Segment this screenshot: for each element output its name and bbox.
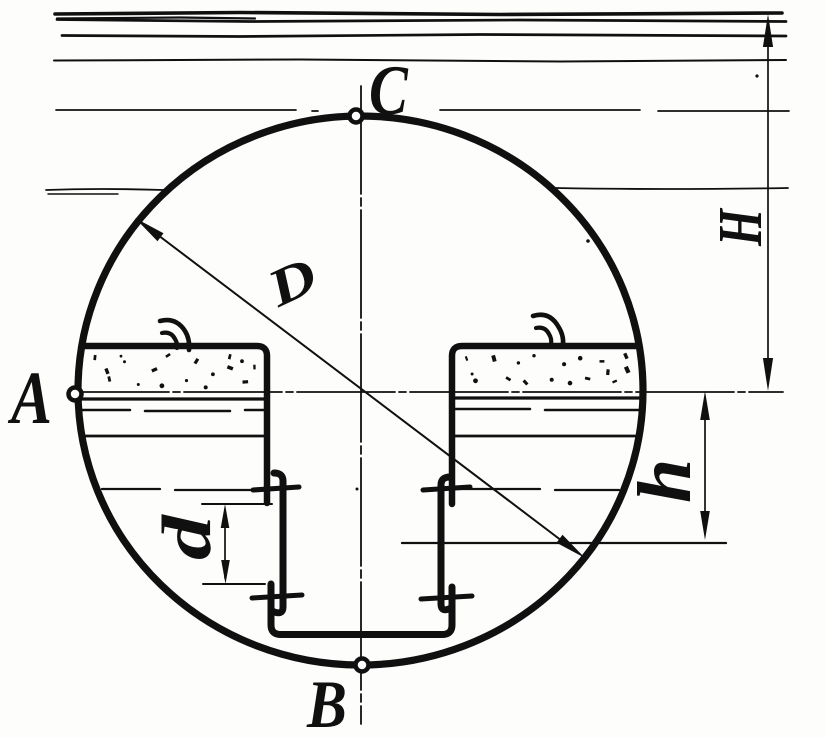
svg-text:H: H	[706, 208, 776, 247]
svg-text:C: C	[369, 52, 408, 131]
svg-text:D: D	[258, 246, 326, 318]
svg-text:B: B	[306, 666, 347, 738]
svg-text:d: d	[148, 513, 225, 560]
svg-text:A: A	[7, 356, 52, 439]
svg-text:h: h	[623, 459, 707, 503]
